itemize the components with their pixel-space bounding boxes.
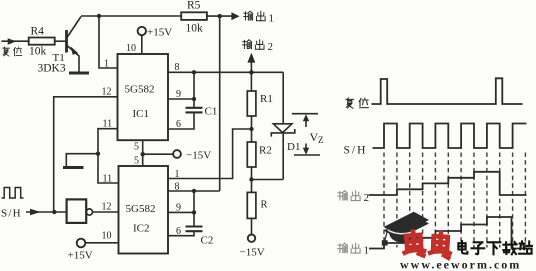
transistor Q1 emitter arrowhead	[71, 46, 79, 55]
node: reset input arrowhead	[8, 38, 17, 45]
power -15V terminal	[173, 150, 181, 158]
svg-text:10: 10	[126, 43, 136, 54]
wire: reset input line	[1, 40, 28, 42]
wire: IC1 pin 5 column to IC2 pin 5	[142, 140, 144, 166]
wire: output2 node to R1	[250, 72, 252, 91]
resistor R	[247, 192, 256, 218]
wire: feedback R1R2 junction to IC2 pin 1	[168, 129, 252, 179]
resistor R1	[247, 91, 256, 116]
wire: R5 to output 1 node	[207, 15, 232, 17]
svg-text:8: 8	[175, 182, 180, 193]
svg-text:IC1: IC1	[133, 108, 150, 120]
svg-text:5: 5	[134, 156, 139, 167]
svg-text:+15V: +15V	[68, 250, 93, 262]
svg-text:C2: C2	[201, 235, 214, 247]
wire: diode return	[252, 179, 284, 181]
wire: R1 to R1R2 junction	[251, 116, 253, 142]
svg-text:5G582: 5G582	[126, 203, 156, 215]
svg-text:1: 1	[364, 245, 370, 257]
power +15V terminal top	[138, 27, 146, 35]
wire: R to -15V terminal	[251, 218, 253, 234]
svg-text:R5: R5	[187, 0, 201, 12]
gate U3 inverter box	[67, 199, 87, 223]
svg-text:6: 6	[176, 226, 181, 237]
node: junction dot -15V	[141, 152, 145, 156]
wire: inverter to IC2 pin 12	[93, 211, 119, 213]
power +15V terminal bottom	[77, 239, 86, 248]
wire: IC1 pin 8 line to output 2 and diode branch	[168, 71, 283, 73]
label 复位 (reset input)	[3, 47, 22, 56]
wire: to -15V terminal	[143, 153, 174, 155]
op-amp U1 (IC1 5G582) box	[118, 54, 169, 140]
wire: IC1 pin 9	[168, 98, 194, 100]
svg-text:1: 1	[104, 59, 109, 70]
node: Vz bottom tick	[294, 154, 320, 156]
wire: column from output1 node down to IC2 pin 8	[219, 16, 221, 191]
gate U3 inverter bubble	[86, 209, 92, 215]
wire: branch to IC1 pin 1	[99, 16, 118, 68]
transistor Q1 base bar	[65, 30, 68, 53]
wire: IC1 pin 11 branch	[98, 129, 119, 183]
svg-text:5G582: 5G582	[125, 84, 155, 96]
wire: reset waveform trace	[372, 78, 523, 104]
svg-text:S/H: S/H	[1, 208, 22, 220]
svg-text:R1: R1	[260, 93, 273, 105]
svg-text:+15V: +15V	[147, 27, 172, 39]
svg-text:D1: D1	[287, 141, 300, 153]
svg-text:3DK3: 3DK3	[38, 63, 66, 75]
svg-text:C1: C1	[205, 106, 218, 118]
svg-text:−15V: −15V	[240, 247, 265, 259]
wire: S/H waveform trace	[373, 124, 527, 149]
svg-text:www.eeworm.com: www.eeworm.com	[400, 258, 521, 271]
svg-text:9: 9	[176, 203, 181, 214]
svg-text:9: 9	[176, 89, 181, 100]
capacitor C1	[186, 108, 203, 113]
wire: pins 8-9 tie column	[193, 72, 195, 107]
svg-text:12: 12	[102, 202, 112, 213]
diode D1 branch wire lower	[282, 133, 284, 180]
wire: R4 to T1 base	[55, 40, 66, 42]
wire: C1 to pin 6	[168, 113, 194, 129]
node: Vz top tick	[292, 113, 318, 115]
node: R1R2 junction dot	[249, 127, 253, 131]
transistor Q1 emitter	[67, 46, 79, 72]
wire: IC1 pin 12 long branch	[54, 97, 118, 212]
capacitor C2	[186, 227, 203, 232]
svg-text:R: R	[261, 200, 268, 211]
svg-text:−15V: −15V	[186, 150, 211, 162]
node: R2 bottom junction dot	[249, 177, 253, 181]
resistor R2	[247, 142, 256, 167]
node: S/H arrowhead	[30, 209, 41, 216]
diode D1 zener triangle	[273, 124, 292, 133]
wire: ground stub from pin 11 branch	[66, 154, 98, 166]
wire: IC2 pin 9	[168, 211, 194, 213]
ground at T1 emitter	[69, 72, 89, 75]
node: junction dot pin 9	[192, 97, 196, 101]
node: Vz down arrow	[305, 144, 307, 152]
label 输出 1	[244, 11, 266, 21]
logo graduation cap	[382, 212, 429, 246]
svg-text:8: 8	[175, 62, 180, 73]
wire: output2 staircase trace	[369, 172, 527, 195]
transistor Q1 collector	[67, 17, 81, 38]
node: Vz up arrow	[305, 117, 307, 127]
logo 虫虫 red characters	[403, 231, 450, 258]
svg-text:R2: R2	[259, 145, 272, 157]
node: output1 junction dot	[218, 14, 222, 18]
diode D1 branch wire upper	[282, 72, 284, 124]
wire: C2 to IC2 pin 6	[168, 232, 194, 236]
wire: R2 to bottom junction	[251, 167, 253, 192]
svg-text:S/H: S/H	[344, 145, 368, 157]
wire: IC2 pin 8	[168, 190, 220, 192]
node: junction dot IC2 pin8/C2	[192, 189, 196, 193]
node: junction dot IC2 pin 9	[192, 210, 196, 214]
svg-text:10k: 10k	[29, 46, 47, 58]
svg-text:R4: R4	[31, 26, 45, 38]
wire: S/H input line	[26, 211, 67, 213]
svg-text:6: 6	[176, 119, 181, 130]
wire: +15V to IC1 pin 10	[141, 35, 143, 54]
node: output2 arrowhead	[247, 53, 255, 63]
label 输出 2 waveform	[338, 191, 360, 201]
svg-text:10k: 10k	[186, 23, 204, 35]
svg-text:Z: Z	[318, 135, 324, 145]
diode D1 zener cathode bar	[271, 129, 295, 137]
resistor R5	[181, 12, 207, 20]
node: output2 junction dot	[249, 70, 254, 75]
svg-text:10: 10	[102, 231, 112, 242]
wire: output1 staircase trace	[369, 217, 527, 249]
logo 电子下载站 text	[458, 241, 531, 254]
svg-text:1: 1	[175, 169, 180, 180]
resistor R4	[29, 38, 55, 45]
ground at IC1 pin 11 branch	[63, 166, 84, 169]
node: junction dot pin 11 branch	[96, 152, 100, 156]
node: junction dot pin8/C1	[192, 70, 196, 74]
wire: +15V to IC2 pin 10	[85, 242, 118, 244]
label 复位 waveform	[346, 98, 368, 108]
node: junction dot S/H	[52, 210, 56, 214]
wire: output2 arrow stem	[250, 62, 252, 73]
svg-text:11: 11	[103, 119, 113, 130]
svg-text:11: 11	[103, 174, 113, 185]
svg-text:2: 2	[268, 41, 274, 53]
svg-text:1: 1	[269, 13, 275, 25]
node: S/H square-wave icon	[2, 188, 24, 199]
node: output1 arrowhead	[231, 12, 239, 20]
svg-text:12: 12	[102, 87, 112, 98]
svg-text:IC2: IC2	[133, 223, 150, 235]
svg-text:2: 2	[364, 192, 370, 204]
waveform panel dashed gridlines	[384, 153, 525, 248]
op-amp U2 (IC2 5G582) box	[119, 166, 169, 254]
label 输出 2	[242, 40, 264, 50]
label 输出 1 waveform	[338, 243, 360, 253]
node: junction dot top rail	[97, 14, 101, 18]
power -15V terminal bottom	[248, 235, 255, 242]
svg-text:5: 5	[134, 142, 139, 153]
wire: top rail from collector to R5	[81, 15, 181, 17]
wire: IC2 pins 8-9 tie column	[193, 191, 195, 226]
